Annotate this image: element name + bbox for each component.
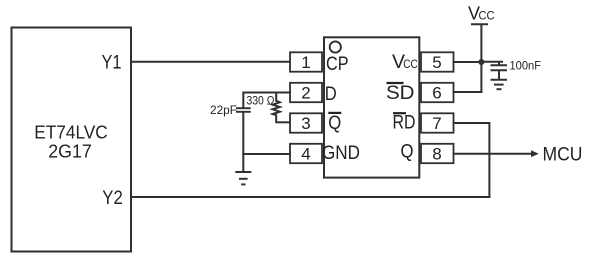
ground symbol bottom-left (235, 171, 251, 173)
flip-flop body (324, 37, 419, 177)
svg-text:SD: SD (386, 82, 415, 104)
svg-text:7: 7 (432, 114, 441, 133)
svg-text:Q: Q (401, 140, 414, 162)
pin box 6 (421, 83, 454, 102)
VCC rail tick (471, 23, 488, 25)
svg-text:GND: GND (322, 142, 360, 164)
wire pin8 to MCU (453, 153, 533, 155)
wire pin2 to C1 (243, 92, 291, 94)
svg-text:V: V (468, 4, 480, 24)
wire Y1 to pin 1 (130, 61, 291, 63)
wire pin5 to VCC (453, 61, 482, 63)
svg-text:V: V (392, 51, 405, 73)
pin box 1 (290, 52, 322, 71)
svg-text:100nF: 100nF (510, 59, 542, 73)
svg-text:CC: CC (479, 9, 495, 23)
capacitor bottom lead to ground (242, 113, 244, 173)
wire pin4 to ground rail (242, 153, 291, 155)
wire VCC to C2 (481, 62, 503, 65)
capacitor C 22pF top lead (242, 92, 244, 108)
ground symbol right (491, 79, 508, 81)
wire Y2 (130, 196, 490, 198)
svg-text:1: 1 (301, 53, 310, 72)
svg-text:ET74LVC: ET74LVC (34, 123, 108, 143)
svg-text:Q: Q (328, 112, 341, 134)
capacitor C2 100nF plates (491, 64, 508, 66)
svg-text:D: D (325, 83, 337, 105)
pin box 2 (290, 83, 322, 102)
wire pin6 to VCC (453, 91, 483, 93)
svg-text:MCU: MCU (543, 144, 583, 166)
svg-text:2: 2 (301, 84, 310, 103)
svg-text:2G17: 2G17 (48, 142, 92, 162)
svg-text:22pF: 22pF (210, 103, 237, 117)
svg-text:3: 3 (301, 114, 310, 133)
IC box ET74LVC2G17 (12, 28, 132, 252)
svg-text:Y1: Y1 (102, 53, 122, 74)
pin box 3 (290, 113, 322, 132)
VCC vertical wire (480, 24, 482, 93)
C2 lead to ground (498, 71, 500, 80)
svg-text:Y2: Y2 (102, 188, 123, 209)
wire pin7 down to Y2 (453, 123, 490, 198)
pin-1 indicator circle (330, 41, 341, 52)
svg-text:4: 4 (301, 145, 310, 164)
svg-text:RD: RD (393, 112, 416, 134)
pin box 4 (290, 144, 322, 163)
svg-text:8: 8 (432, 145, 441, 164)
wire resistor to pin 3 (275, 121, 291, 123)
svg-text:6: 6 (432, 84, 441, 103)
svg-text:CP: CP (326, 53, 349, 75)
pin box 7 (421, 113, 454, 132)
capacitor 22pF plates (236, 107, 251, 109)
pin box 5 (421, 52, 454, 71)
svg-text:330 Ω: 330 Ω (247, 96, 275, 108)
svg-text:CC: CC (403, 57, 418, 71)
arrowhead MCU (531, 150, 539, 157)
junction dot (478, 59, 484, 65)
pin box 8 (421, 144, 454, 163)
resistor R 330ohm (273, 93, 280, 123)
svg-text:5: 5 (432, 53, 441, 72)
